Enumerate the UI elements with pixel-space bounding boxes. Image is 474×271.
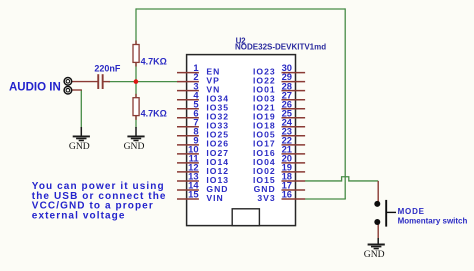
svg-text:15: 15 (188, 189, 198, 200)
svg-text:16: 16 (282, 189, 292, 200)
svg-text:4.7KΩ: 4.7KΩ (141, 109, 167, 119)
svg-text:GND: GND (364, 249, 385, 260)
svg-text:GND: GND (124, 141, 145, 152)
svg-text:4.7KΩ: 4.7KΩ (141, 56, 167, 66)
svg-text:VIN: VIN (206, 193, 223, 203)
svg-text:3V3: 3V3 (257, 193, 275, 203)
svg-text:MODE: MODE (398, 207, 425, 216)
svg-text:Momentary switch: Momentary switch (398, 217, 468, 226)
svg-text:GND: GND (69, 141, 90, 152)
svg-text:AUDIO IN: AUDIO IN (9, 81, 61, 93)
svg-text:220nF: 220nF (94, 64, 121, 74)
svg-text:external voltage: external voltage (32, 210, 126, 221)
svg-text:NODE32S-DEVKITV1md: NODE32S-DEVKITV1md (235, 43, 326, 52)
